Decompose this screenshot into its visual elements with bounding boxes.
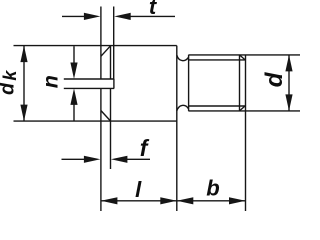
thread major top line + d extension (y=54.9) — [188, 54, 300, 56]
dimension t line — [62, 15, 85, 17]
dimension dk line — [23, 46, 25, 122]
chamfer diagonal bottom — [101, 111, 111, 121]
arrow b left — [177, 197, 194, 204]
arrow d bottom — [285, 94, 292, 111]
thread chamfer diagonal top right — [240, 55, 246, 61]
arrow b right — [229, 197, 246, 204]
thread end face + b extension (x=245.5) — [245, 55, 247, 211]
wire: head left face + extension line (x=100.9) — [100, 7, 102, 80]
body bottom outline + dk extension (y=121.1) — [14, 120, 177, 122]
dimension d line — [288, 55, 290, 111]
arrow l left — [101, 197, 118, 204]
slot bottom line / n extension — [64, 87, 114, 89]
dimension f line — [62, 158, 85, 160]
thread major bottom line + d extension (y=110.9) — [188, 110, 300, 112]
wire: slot bottom + t extension (x=113.7) — [113, 7, 115, 80]
slot right edge — [113, 79, 115, 88]
svg-text:b: b — [206, 176, 219, 201]
arrow f right — [111, 156, 128, 163]
undercut arc top — [177, 55, 189, 61]
body top outline + dk extension (y=45.6) — [14, 45, 177, 47]
arrow t left — [84, 13, 101, 20]
arrow f left — [84, 156, 101, 163]
thread left end face (x=188.6) — [188, 55, 190, 111]
thread chamfer circle line (x=239.5) — [239, 55, 241, 111]
arrow dk bottom — [20, 105, 27, 122]
arrow n top — [70, 63, 77, 80]
dimension n arrow tails — [73, 46, 75, 64]
slot band white mask — [63, 80, 113, 88]
arrow l right — [160, 197, 177, 204]
arrow n bottom — [70, 88, 77, 105]
thread minor line bottom (y=106) — [189, 105, 245, 107]
arrow t right — [114, 13, 131, 20]
svg-text:l: l — [135, 177, 142, 202]
thread chamfer diagonal bottom right — [240, 105, 246, 111]
arrow dk top — [20, 46, 27, 63]
chamfer diagonal top — [101, 46, 111, 56]
wire: chamfer circle line (x=110.5) — [110, 46, 112, 79]
thread minor line top (y=59.9) — [189, 59, 245, 61]
slot top line / n extension — [64, 78, 114, 80]
dimension l line — [101, 200, 177, 202]
svg-text:n: n — [39, 75, 63, 88]
shoulder right face + extension (x=176.8) — [176, 46, 178, 211]
svg-text:d: d — [261, 71, 288, 87]
undercut arc bottom — [177, 105, 189, 111]
dimension b line — [177, 200, 246, 202]
arrow d top — [285, 55, 292, 72]
